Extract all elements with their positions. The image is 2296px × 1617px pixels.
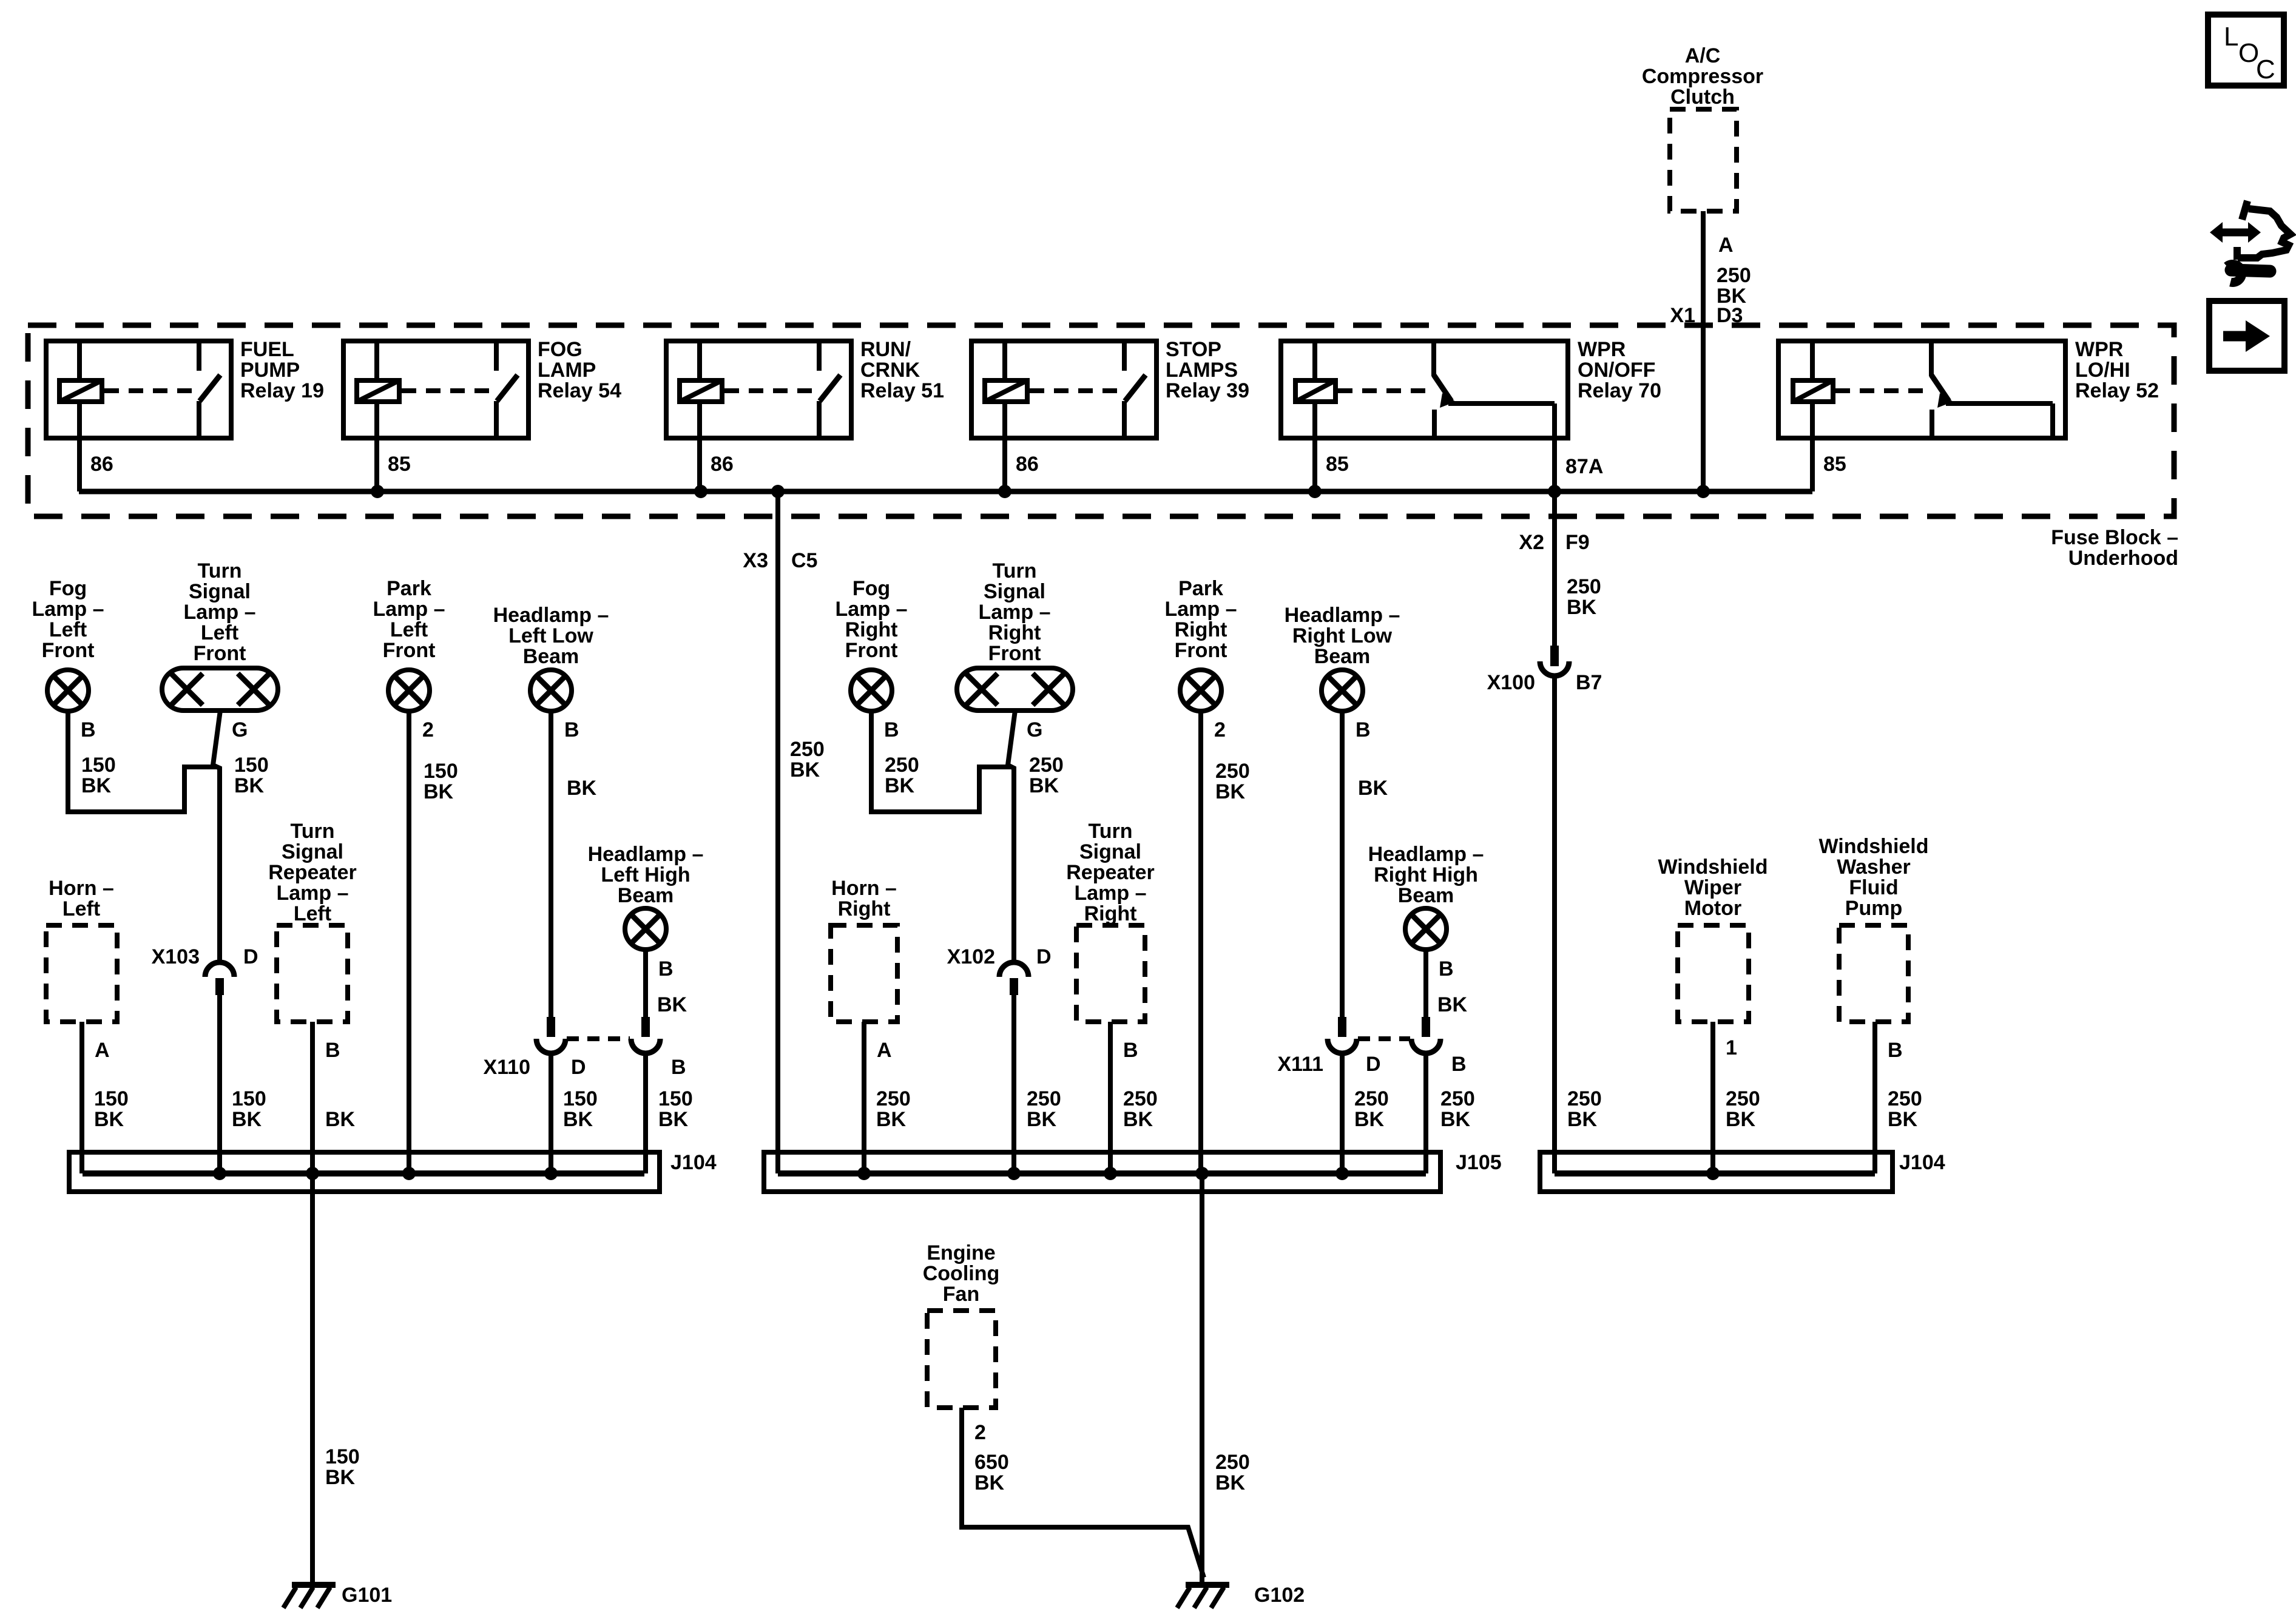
svg-text:B7: B7 bbox=[1576, 671, 1602, 694]
svg-text:Relay 52: Relay 52 bbox=[2075, 379, 2159, 402]
svg-text:G101: G101 bbox=[342, 1584, 392, 1607]
svg-text:B: B bbox=[1356, 718, 1371, 741]
svg-text:Signal: Signal bbox=[1079, 840, 1141, 863]
svg-text:Right Low: Right Low bbox=[1292, 624, 1393, 647]
wire horn right pin A to J105 bbox=[862, 1022, 866, 1173]
junction X102 wire bbox=[1007, 1167, 1021, 1180]
svg-text:Horn –: Horn – bbox=[831, 877, 897, 900]
svg-text:Beam: Beam bbox=[618, 884, 674, 907]
wire X102 to J105 bbox=[1011, 993, 1016, 1173]
svg-text:Signal: Signal bbox=[984, 580, 1045, 603]
wire park right to G102 bbox=[1200, 1173, 1204, 1585]
svg-text:2: 2 bbox=[1214, 718, 1226, 741]
wire wiper motor pin 1 to J104 bbox=[1710, 1022, 1715, 1173]
svg-text:150: 150 bbox=[658, 1087, 693, 1110]
svg-text:BK: BK bbox=[325, 1108, 356, 1131]
connector X111 D half bbox=[1338, 1017, 1346, 1037]
svg-text:Right: Right bbox=[845, 618, 898, 641]
svg-text:BK: BK bbox=[1888, 1108, 1918, 1131]
junction relay51 pin86 bbox=[694, 485, 707, 498]
svg-text:BK: BK bbox=[424, 780, 454, 803]
svg-text:Headlamp –: Headlamp – bbox=[1368, 843, 1484, 866]
svg-text:Lamp –: Lamp – bbox=[32, 598, 104, 621]
svg-text:Front: Front bbox=[383, 639, 436, 662]
svg-text:BK: BK bbox=[885, 774, 915, 797]
junction wiper motor wire bbox=[1706, 1167, 1720, 1180]
turn signal repeater lamp right (dashed box) bbox=[1076, 925, 1145, 1022]
junction repeater wire bbox=[306, 1167, 319, 1180]
wire X103 to J104 bbox=[217, 993, 222, 1173]
fog lamp left front bbox=[47, 670, 89, 711]
svg-text:BK: BK bbox=[567, 777, 597, 800]
svg-text:X102: X102 bbox=[947, 945, 995, 968]
wire horn drop into bus bbox=[79, 1155, 84, 1173]
svg-text:Park: Park bbox=[1178, 577, 1223, 600]
svg-text:B: B bbox=[564, 718, 579, 741]
svg-text:FOG: FOG bbox=[538, 338, 582, 361]
svg-text:Right: Right bbox=[838, 897, 891, 920]
park lamp left front bbox=[388, 670, 430, 711]
svg-text:Horn –: Horn – bbox=[49, 877, 114, 900]
svg-text:BK: BK bbox=[1437, 993, 1468, 1016]
svg-text:BK: BK bbox=[1354, 1108, 1385, 1131]
svg-text:250: 250 bbox=[885, 754, 919, 777]
svg-text:BK: BK bbox=[974, 1471, 1005, 1494]
wire repeater left pin B to J104 bbox=[310, 1022, 315, 1173]
bus wire inside fuse block bbox=[79, 489, 1812, 495]
svg-text:CRNK: CRNK bbox=[860, 359, 920, 382]
svg-text:STOP: STOP bbox=[1166, 338, 1221, 361]
svg-text:X111: X111 bbox=[1277, 1053, 1323, 1076]
ground G101 bbox=[292, 1582, 336, 1588]
page arrow box bbox=[2209, 301, 2284, 371]
ground bus J104 right wire bbox=[1555, 1170, 1875, 1176]
svg-text:G102: G102 bbox=[1254, 1584, 1305, 1607]
svg-text:250: 250 bbox=[1567, 575, 1601, 598]
svg-text:250: 250 bbox=[1888, 1087, 1922, 1110]
junction X111-D wire bbox=[1335, 1167, 1349, 1180]
svg-text:BK: BK bbox=[232, 1108, 262, 1131]
svg-text:B: B bbox=[1888, 1039, 1903, 1062]
svg-text:WPR: WPR bbox=[1578, 338, 1626, 361]
relay 52 WPR LO/HI bbox=[1778, 341, 2065, 438]
wire fog lamp left to turn signal wire bbox=[68, 711, 217, 812]
svg-text:250: 250 bbox=[1215, 760, 1250, 783]
junction A/C clutch wire bbox=[1697, 485, 1710, 498]
wire A/C clutch pin A to fuse block bbox=[1701, 211, 1706, 491]
svg-text:150: 150 bbox=[94, 1087, 129, 1110]
svg-text:X110: X110 bbox=[483, 1056, 530, 1079]
svg-text:D: D bbox=[243, 945, 258, 968]
fog lamp right front bbox=[851, 670, 892, 711]
svg-text:X1: X1 bbox=[1670, 304, 1695, 327]
svg-text:150: 150 bbox=[232, 1087, 266, 1110]
svg-text:650: 650 bbox=[974, 1451, 1009, 1474]
wire horn left pin A to J104 bbox=[79, 1022, 84, 1173]
svg-text:250: 250 bbox=[876, 1087, 911, 1110]
relay 54 FOG LAMP bbox=[343, 341, 528, 438]
connector X110 B half bbox=[641, 1017, 650, 1037]
wire fog lamp right to turn signal wire bbox=[871, 711, 1011, 812]
windshield wiper motor (dashed box) bbox=[1678, 925, 1749, 1022]
svg-text:Relay 19: Relay 19 bbox=[240, 379, 324, 402]
svg-text:250: 250 bbox=[1027, 1087, 1061, 1110]
LOC legend box bbox=[2208, 15, 2284, 86]
svg-text:J105: J105 bbox=[1456, 1151, 1502, 1174]
svg-text:BK: BK bbox=[1123, 1108, 1153, 1131]
wire X110-D to J104 bbox=[549, 1053, 553, 1173]
svg-text:D: D bbox=[1366, 1053, 1381, 1076]
svg-text:Lamp –: Lamp – bbox=[1164, 598, 1237, 621]
svg-text:BK: BK bbox=[1029, 774, 1059, 797]
svg-text:Signal: Signal bbox=[282, 840, 343, 863]
svg-text:Front: Front bbox=[845, 639, 898, 662]
dashed mate link X110 bbox=[567, 1036, 630, 1041]
svg-text:A: A bbox=[95, 1039, 110, 1062]
svg-text:BK: BK bbox=[1027, 1108, 1057, 1131]
svg-text:J104: J104 bbox=[1899, 1151, 1945, 1174]
svg-text:1: 1 bbox=[1726, 1036, 1737, 1059]
svg-text:A/C: A/C bbox=[1685, 44, 1721, 67]
svg-text:A: A bbox=[877, 1039, 892, 1062]
junction horn right wire bbox=[857, 1167, 871, 1180]
ground bus J105 wire bbox=[778, 1170, 1426, 1176]
connector X103 / D bbox=[205, 962, 234, 977]
svg-text:Left Low: Left Low bbox=[508, 624, 593, 647]
svg-text:87A: 87A bbox=[1565, 455, 1603, 478]
vehicle service icon (car outline, double arrow, wrench) bbox=[2220, 229, 2250, 237]
svg-text:Cooling: Cooling bbox=[923, 1262, 1000, 1285]
relay 39 STOP LAMPS bbox=[971, 341, 1156, 438]
junction X110-D wire bbox=[544, 1167, 558, 1180]
svg-text:Lamp –: Lamp – bbox=[373, 598, 445, 621]
horn right (dashed box) bbox=[831, 925, 897, 1022]
wire X110-B to J104 bbox=[643, 1053, 648, 1173]
svg-text:BK: BK bbox=[325, 1466, 356, 1489]
svg-text:Relay 70: Relay 70 bbox=[1578, 379, 1661, 402]
svg-text:Park: Park bbox=[387, 577, 431, 600]
wire X111-D to J105 bbox=[1340, 1053, 1345, 1173]
svg-text:J104: J104 bbox=[670, 1151, 717, 1174]
svg-text:Washer: Washer bbox=[1837, 856, 1911, 879]
svg-text:Right: Right bbox=[1175, 618, 1227, 641]
svg-text:B: B bbox=[671, 1056, 686, 1079]
svg-text:B: B bbox=[658, 957, 674, 981]
svg-text:Compressor: Compressor bbox=[1642, 65, 1763, 88]
svg-text:86: 86 bbox=[1016, 453, 1039, 476]
junction repeater right wire bbox=[1104, 1167, 1117, 1180]
wire lowbeam right to X111 bbox=[1340, 711, 1345, 1018]
ground bus J104 left (outer) bbox=[69, 1152, 660, 1192]
svg-text:G: G bbox=[232, 718, 248, 741]
svg-text:BK: BK bbox=[1358, 777, 1388, 800]
svg-text:BK: BK bbox=[1567, 596, 1597, 619]
svg-text:2: 2 bbox=[974, 1421, 986, 1444]
svg-text:BK: BK bbox=[657, 993, 687, 1016]
fuse block - underhood (dashed outline) bbox=[28, 325, 2174, 516]
svg-text:RUN/: RUN/ bbox=[860, 338, 911, 361]
svg-text:BK: BK bbox=[563, 1108, 593, 1131]
svg-text:Relay 54: Relay 54 bbox=[538, 379, 621, 402]
svg-text:Front: Front bbox=[194, 642, 246, 665]
svg-text:86: 86 bbox=[711, 453, 734, 476]
svg-text:Wiper: Wiper bbox=[1684, 876, 1741, 899]
svg-text:85: 85 bbox=[388, 453, 411, 476]
svg-text:Right: Right bbox=[1084, 902, 1137, 925]
ground bus J104 left wire bbox=[83, 1170, 644, 1176]
ground bus J105 (outer) bbox=[764, 1152, 1440, 1192]
svg-text:G: G bbox=[1027, 718, 1042, 741]
svg-text:BK: BK bbox=[94, 1108, 124, 1131]
svg-text:Front: Front bbox=[42, 639, 95, 662]
svg-text:Headlamp –: Headlamp – bbox=[1285, 604, 1400, 627]
svg-text:LO/HI: LO/HI bbox=[2075, 359, 2130, 382]
svg-text:150: 150 bbox=[563, 1087, 598, 1110]
svg-text:Motor: Motor bbox=[1684, 897, 1741, 920]
wire X111-B to J105 bbox=[1423, 1053, 1428, 1173]
svg-text:BK: BK bbox=[81, 774, 112, 797]
svg-text:D: D bbox=[571, 1056, 586, 1079]
svg-text:250: 250 bbox=[790, 738, 825, 761]
svg-text:Beam: Beam bbox=[523, 645, 579, 668]
engine cooling fan (dashed box) bbox=[927, 1311, 996, 1408]
svg-text:Left: Left bbox=[49, 618, 87, 641]
svg-text:Beam: Beam bbox=[1314, 645, 1371, 668]
junction relay70 pin87A / X2 drop bbox=[1548, 485, 1561, 498]
svg-text:Left: Left bbox=[201, 621, 238, 644]
wire X2-F9 drop upper bbox=[1552, 491, 1557, 647]
turn signal lamp left front bbox=[162, 668, 278, 711]
svg-text:ON/OFF: ON/OFF bbox=[1578, 359, 1655, 382]
wire washer pump pin B to J104 bbox=[1872, 1022, 1877, 1173]
svg-text:Lamp –: Lamp – bbox=[835, 598, 907, 621]
svg-text:150: 150 bbox=[234, 754, 269, 777]
connector X102 / D bbox=[999, 962, 1028, 977]
svg-text:Left: Left bbox=[390, 618, 428, 641]
turn signal repeater lamp left (dashed box) bbox=[277, 925, 348, 1022]
dashed mate link X111 bbox=[1358, 1036, 1410, 1041]
svg-text:BK: BK bbox=[1215, 1471, 1246, 1494]
svg-text:Clutch: Clutch bbox=[1670, 86, 1735, 109]
svg-text:2: 2 bbox=[422, 718, 434, 741]
connector X111 B half bbox=[1422, 1017, 1430, 1037]
svg-text:150: 150 bbox=[424, 760, 458, 783]
junction park wire bbox=[402, 1167, 416, 1180]
svg-text:PUMP: PUMP bbox=[240, 359, 300, 382]
svg-text:250: 250 bbox=[1440, 1087, 1475, 1110]
svg-text:Right High: Right High bbox=[1374, 863, 1478, 886]
junction relay54 pin85 bbox=[371, 485, 384, 498]
wire X100 to J104 bbox=[1552, 675, 1557, 1173]
svg-text:Turn: Turn bbox=[992, 559, 1036, 582]
svg-text:X3: X3 bbox=[743, 549, 768, 572]
svg-text:L: L bbox=[2224, 22, 2238, 52]
svg-text:BK: BK bbox=[1726, 1108, 1756, 1131]
svg-text:Engine: Engine bbox=[927, 1241, 995, 1264]
svg-text:250: 250 bbox=[1717, 264, 1751, 287]
svg-text:Relay 39: Relay 39 bbox=[1166, 379, 1249, 402]
wire X3-C5 drop bbox=[775, 491, 780, 1173]
connector X100 / B7 bbox=[1550, 646, 1559, 666]
svg-text:Fan: Fan bbox=[943, 1283, 979, 1306]
svg-text:250: 250 bbox=[1726, 1087, 1760, 1110]
svg-text:250: 250 bbox=[1029, 754, 1064, 777]
junction turn signal wire bbox=[213, 1167, 226, 1180]
svg-text:BK: BK bbox=[790, 758, 820, 781]
svg-text:Windshield: Windshield bbox=[1818, 835, 1928, 858]
svg-text:85: 85 bbox=[1326, 453, 1349, 476]
svg-text:B: B bbox=[81, 718, 96, 741]
svg-text:150: 150 bbox=[81, 754, 116, 777]
svg-text:250: 250 bbox=[1215, 1451, 1250, 1474]
relay 70 WPR ON/OFF bbox=[1281, 341, 1568, 438]
wire fan pin 2 to ground bbox=[962, 1408, 1204, 1578]
svg-text:Underhood: Underhood bbox=[2068, 547, 2178, 570]
svg-text:Relay 51: Relay 51 bbox=[860, 379, 944, 402]
svg-text:LAMPS: LAMPS bbox=[1166, 359, 1238, 382]
headlamp right low beam bbox=[1322, 670, 1363, 711]
wire J104 to G101 bbox=[310, 1173, 315, 1585]
wire repeater right pin B to J105 bbox=[1108, 1022, 1113, 1173]
svg-text:BK: BK bbox=[234, 774, 265, 797]
wire turn signal right pin G down bbox=[1008, 711, 1015, 964]
svg-text:C5: C5 bbox=[791, 549, 817, 572]
svg-text:Lamp –: Lamp – bbox=[276, 882, 348, 905]
svg-text:Pump: Pump bbox=[1845, 897, 1902, 920]
svg-text:86: 86 bbox=[90, 453, 113, 476]
svg-text:Left: Left bbox=[294, 902, 331, 925]
svg-text:C: C bbox=[2256, 55, 2275, 84]
svg-text:X2: X2 bbox=[1519, 531, 1544, 554]
park lamp right front bbox=[1180, 670, 1221, 711]
svg-text:B: B bbox=[884, 718, 899, 741]
headlamp left low beam bbox=[530, 670, 572, 711]
svg-text:Left: Left bbox=[62, 897, 100, 920]
svg-text:Lamp –: Lamp – bbox=[978, 601, 1050, 624]
svg-text:Repeater: Repeater bbox=[268, 861, 357, 884]
svg-text:BK: BK bbox=[1567, 1108, 1598, 1131]
svg-text:85: 85 bbox=[1823, 453, 1846, 476]
svg-text:LAMP: LAMP bbox=[538, 359, 596, 382]
svg-text:Windshield: Windshield bbox=[1658, 856, 1768, 879]
wire lowbeam left to X110 bbox=[549, 711, 553, 1018]
svg-text:Repeater: Repeater bbox=[1066, 861, 1155, 884]
ground bus J104 right (outer) bbox=[1540, 1152, 1893, 1192]
svg-text:BK: BK bbox=[876, 1108, 907, 1131]
svg-text:X103: X103 bbox=[152, 945, 200, 968]
wire highbeam right to X111-B bbox=[1423, 950, 1428, 1018]
svg-text:A: A bbox=[1718, 234, 1734, 257]
svg-text:Headlamp –: Headlamp – bbox=[588, 843, 704, 866]
relay 19 FUEL PUMP bbox=[46, 341, 231, 438]
headlamp right high beam bbox=[1405, 908, 1447, 950]
svg-text:BK: BK bbox=[658, 1108, 689, 1131]
svg-text:Front: Front bbox=[988, 642, 1041, 665]
svg-text:B: B bbox=[1451, 1053, 1467, 1076]
svg-text:Headlamp –: Headlamp – bbox=[493, 604, 609, 627]
junction node X3 drop bbox=[771, 485, 785, 498]
svg-text:Turn: Turn bbox=[1088, 820, 1132, 843]
relay 51 RUN/CRNK bbox=[666, 341, 851, 438]
svg-text:D3: D3 bbox=[1717, 304, 1743, 327]
junction relay70 pin85 bbox=[1308, 485, 1322, 498]
svg-text:FUEL: FUEL bbox=[240, 338, 294, 361]
svg-text:250: 250 bbox=[1567, 1087, 1602, 1110]
A/C Compressor Clutch (dashed box) bbox=[1670, 109, 1737, 211]
turn signal lamp right front bbox=[957, 668, 1073, 711]
connector X110 D half bbox=[547, 1017, 555, 1037]
svg-text:Right: Right bbox=[988, 621, 1041, 644]
svg-text:B: B bbox=[1439, 957, 1454, 981]
svg-text:250: 250 bbox=[1123, 1087, 1158, 1110]
svg-text:150: 150 bbox=[325, 1445, 360, 1468]
ground G102 bbox=[1186, 1582, 1229, 1588]
junction park right wire bbox=[1195, 1167, 1209, 1180]
svg-text:Fuse Block –: Fuse Block – bbox=[2051, 526, 2178, 549]
svg-text:Left High: Left High bbox=[601, 863, 690, 886]
svg-text:BK: BK bbox=[1215, 780, 1246, 803]
svg-text:D: D bbox=[1036, 945, 1052, 968]
svg-text:Fluid: Fluid bbox=[1849, 876, 1898, 899]
svg-text:Lamp –: Lamp – bbox=[1074, 882, 1146, 905]
svg-text:Signal: Signal bbox=[189, 580, 251, 603]
svg-text:B: B bbox=[1123, 1039, 1138, 1062]
svg-text:Beam: Beam bbox=[1398, 884, 1454, 907]
svg-text:BK: BK bbox=[1440, 1108, 1471, 1131]
headlamp left high beam bbox=[625, 908, 666, 950]
wire park lamp right down bbox=[1198, 711, 1203, 1173]
svg-text:F9: F9 bbox=[1565, 531, 1590, 554]
svg-text:Front: Front bbox=[1175, 639, 1227, 662]
junction relay39 pin86 bbox=[998, 485, 1011, 498]
svg-text:Fog: Fog bbox=[853, 577, 890, 600]
horn left (dashed box) bbox=[46, 925, 117, 1022]
svg-text:B: B bbox=[325, 1039, 340, 1062]
wire turn signal left pin G down bbox=[213, 711, 220, 964]
svg-text:Turn: Turn bbox=[197, 559, 241, 582]
wire park lamp left to J104 bbox=[407, 711, 411, 1173]
svg-text:WPR: WPR bbox=[2075, 338, 2123, 361]
svg-text:Turn: Turn bbox=[290, 820, 334, 843]
wire highbeam left to X110-B bbox=[643, 950, 648, 1018]
svg-text:Lamp –: Lamp – bbox=[183, 601, 255, 624]
svg-text:X100: X100 bbox=[1487, 671, 1535, 694]
svg-text:Fog: Fog bbox=[49, 577, 87, 600]
windshield washer fluid pump (dashed box) bbox=[1839, 925, 1908, 1022]
svg-text:250: 250 bbox=[1354, 1087, 1389, 1110]
